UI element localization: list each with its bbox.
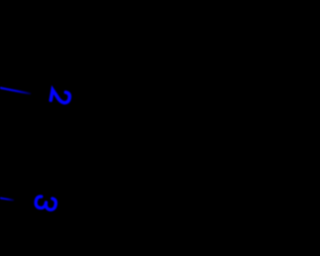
pin number 3	[35, 196, 57, 211]
pin number 2	[51, 90, 71, 104]
wire pin-2 lead	[0, 88, 30, 94]
wire pin-3 lead	[0, 198, 13, 200]
